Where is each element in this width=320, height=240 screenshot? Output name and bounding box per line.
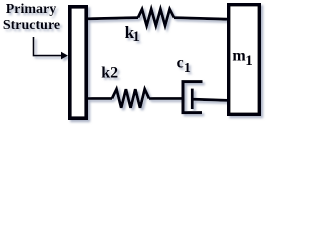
svg-text:Primary: Primary: [6, 2, 57, 17]
svg-text:1: 1: [184, 61, 191, 76]
svg-text:k2: k2: [101, 64, 118, 81]
svg-text:1: 1: [245, 53, 253, 69]
svg-text:1: 1: [132, 29, 140, 45]
svg-text:m: m: [232, 47, 246, 64]
spring k2: [112, 89, 149, 108]
svg-text:c: c: [177, 54, 184, 71]
damper rod to mass: [192, 99, 228, 100]
damper c1 piston: [191, 89, 194, 109]
spring k1: [138, 9, 174, 25]
arrow from label to wall: [34, 37, 62, 56]
wall: primary structure rectangle: [70, 7, 86, 118]
damper c1 cylinder: [183, 82, 203, 113]
svg-text:Structure: Structure: [3, 18, 60, 33]
wire: spring to damper segment: [149, 97, 183, 100]
wire: bottom left segment: [88, 97, 112, 100]
mass m1 rectangle: [229, 5, 260, 115]
wire: top right segment: [174, 18, 227, 20]
wire: top left segment: [88, 18, 138, 19]
